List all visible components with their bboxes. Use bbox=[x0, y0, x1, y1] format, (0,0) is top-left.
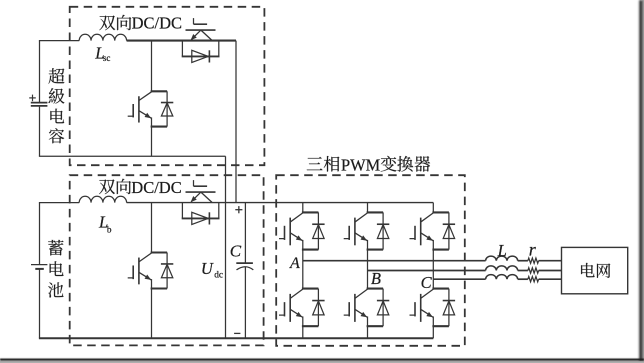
svg-text:dc: dc bbox=[214, 270, 223, 280]
dashed box: bidirectional DC/DC converter 1 (supercap) bbox=[70, 7, 265, 165]
label: converter 1 双向DC/DC bbox=[99, 14, 182, 33]
svg-text:DC/DC: DC/DC bbox=[131, 178, 181, 197]
diode D10 bbox=[443, 289, 455, 327]
svg-text:PWM: PWM bbox=[341, 155, 381, 174]
label: 超级电容 bbox=[48, 68, 64, 143]
IGBT Q6 bbox=[279, 289, 318, 327]
label: 三相PWM变换器 bbox=[307, 155, 430, 174]
diode D8 bbox=[377, 289, 389, 327]
diode D5 bbox=[312, 212, 324, 249]
wire: converter 1 output down to positive bus bbox=[235, 41, 237, 203]
inductor L phase C bbox=[486, 275, 518, 280]
wire: phase A inductor to resistor bbox=[518, 260, 528, 262]
inductor Lsc bbox=[79, 34, 126, 40]
wire: phase B leg lower bbox=[367, 326, 369, 338]
svg-text:sc: sc bbox=[103, 53, 111, 63]
wire: negative DC bus rail bbox=[39, 337, 433, 339]
wire: phase C inductor to resistor bbox=[518, 278, 528, 280]
wire: phase C leg upper bbox=[432, 203, 434, 213]
supercapacitor bbox=[29, 41, 47, 157]
polarity + bbox=[235, 206, 242, 213]
label Lb bbox=[98, 213, 112, 236]
IGBT Q8 bbox=[344, 289, 383, 327]
label: 蓄电池 bbox=[48, 240, 63, 298]
wire: phase A to grid bbox=[539, 260, 562, 262]
IGBT Q3 bbox=[128, 253, 167, 289]
polarity - bbox=[234, 332, 240, 334]
diode D9 bbox=[443, 212, 455, 249]
wire: Q1 emitter to negative wire bbox=[151, 127, 153, 157]
diode D7 bbox=[377, 212, 389, 249]
wire: phase A output line bbox=[303, 260, 486, 262]
diode D1 bbox=[161, 91, 173, 126]
wire: phase B to grid bbox=[539, 270, 562, 272]
wire: battery to inductor Lb bbox=[39, 202, 79, 204]
svg-text:r: r bbox=[529, 239, 537, 259]
wire: phase B midpoint bbox=[367, 250, 369, 289]
diode D4 bbox=[182, 203, 220, 225]
svg-text:DC/DC: DC/DC bbox=[132, 14, 182, 33]
inductor L phase B bbox=[486, 266, 518, 271]
wire: converter 1 top rail bbox=[127, 40, 236, 42]
wire: leg down to IGBT Q3 bbox=[151, 203, 153, 253]
wire: phase C leg lower bbox=[432, 326, 434, 338]
svg-text:C: C bbox=[230, 241, 242, 260]
IGBT Q2 bbox=[186, 18, 216, 40]
resistor r phase C bbox=[528, 277, 539, 282]
battery 蓄电池 bbox=[31, 203, 47, 339]
wire: supercap negative return bbox=[39, 155, 226, 157]
resistor r phase B bbox=[528, 268, 539, 273]
label: 电网 bbox=[581, 263, 610, 278]
wire: phase B inductor to resistor bbox=[518, 270, 528, 272]
IGBT Q1 bbox=[128, 91, 167, 126]
svg-text:b: b bbox=[107, 225, 112, 235]
IGBT Q9 bbox=[410, 212, 449, 249]
IGBT Q5 bbox=[279, 212, 318, 249]
wire: leg down to IGBT Q1 bbox=[151, 41, 153, 92]
diode D6 bbox=[312, 289, 324, 327]
svg-text:U: U bbox=[201, 259, 214, 278]
label Lsc bbox=[94, 44, 110, 63]
IGBT Q7 bbox=[344, 212, 383, 249]
wire: positive DC bus rail bbox=[127, 202, 434, 204]
wire: negative bus vertical to bottom rail bbox=[225, 156, 227, 338]
diode D3 bbox=[161, 253, 173, 289]
wire: Q3 emitter to negative rail bbox=[151, 289, 153, 339]
diode D2 bbox=[182, 41, 220, 63]
IGBT Q4 bbox=[186, 180, 216, 202]
wire: phase A midpoint bbox=[302, 250, 304, 289]
dashed box: bidirectional DC/DC converter 2 (battery) bbox=[70, 175, 264, 345]
svg-text:C: C bbox=[421, 273, 433, 292]
label Udc bbox=[201, 259, 223, 280]
wire: phase C midpoint bbox=[432, 250, 434, 289]
dashed box: three-phase PWM converter bbox=[276, 175, 465, 346]
svg-text:B: B bbox=[371, 269, 381, 288]
capacitor C bbox=[236, 203, 253, 339]
svg-text:A: A bbox=[289, 255, 300, 272]
wire: supercap to inductor Lsc bbox=[39, 40, 79, 42]
wire: phase C output line bbox=[433, 278, 485, 280]
inductor L phase A bbox=[486, 256, 518, 261]
wire: phase A leg upper bbox=[302, 203, 304, 213]
wire: phase A leg lower bbox=[302, 326, 304, 338]
wire: phase B output line bbox=[368, 270, 486, 272]
IGBT Q10 bbox=[410, 289, 449, 327]
svg-text:L: L bbox=[497, 241, 507, 260]
label: converter 2 双向DC/DC bbox=[99, 178, 182, 197]
wire: phase B leg upper bbox=[367, 203, 369, 213]
inductor Lb bbox=[79, 196, 126, 202]
grid box 电网 bbox=[562, 247, 628, 293]
resistor r phase A bbox=[528, 258, 539, 263]
wire: phase C to grid bbox=[539, 278, 562, 280]
